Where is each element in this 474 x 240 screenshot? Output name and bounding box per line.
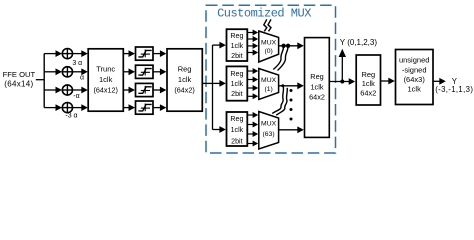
- svg-text:2bit: 2bit: [231, 90, 242, 98]
- svg-text:Reg: Reg: [230, 32, 243, 40]
- svg-text:Trunc: Trunc: [96, 65, 115, 74]
- svg-text:(64x12): (64x12): [94, 86, 118, 95]
- svg-text:-α: -α: [73, 93, 79, 100]
- svg-text:Y (0,1,2,3): Y (0,1,2,3): [340, 38, 378, 47]
- svg-text:Reg: Reg: [362, 70, 376, 79]
- svg-text:1clk: 1clk: [178, 75, 192, 84]
- svg-text:1clk: 1clk: [311, 82, 324, 91]
- svg-text:-signed: -signed: [402, 66, 427, 75]
- svg-text:1clk: 1clk: [231, 126, 244, 134]
- svg-text:α: α: [80, 74, 84, 81]
- svg-text:FFE OUT: FFE OUT: [3, 70, 36, 79]
- svg-text:MUX: MUX: [261, 121, 277, 128]
- svg-text:3 α: 3 α: [72, 60, 82, 67]
- svg-text:Reg: Reg: [178, 65, 192, 74]
- svg-text:(63): (63): [263, 131, 275, 138]
- svg-text:64x2: 64x2: [309, 92, 325, 101]
- svg-text:(64x2): (64x2): [174, 86, 194, 95]
- svg-text:MUX: MUX: [261, 40, 277, 47]
- svg-text:-3 α: -3 α: [65, 113, 77, 120]
- svg-text:(64x3): (64x3): [404, 75, 426, 84]
- svg-text:Customized MUX: Customized MUX: [217, 6, 311, 20]
- svg-text:1clk: 1clk: [408, 84, 422, 93]
- svg-text:2bit: 2bit: [231, 52, 242, 60]
- svg-text:(-3,-1,1,3): (-3,-1,1,3): [435, 85, 473, 94]
- svg-text:MUX: MUX: [261, 77, 277, 84]
- svg-text:Reg: Reg: [230, 70, 243, 78]
- svg-text:1clk: 1clk: [99, 75, 113, 84]
- svg-text:1clk: 1clk: [231, 80, 244, 88]
- svg-text:Reg: Reg: [230, 115, 243, 123]
- svg-text:1clk: 1clk: [362, 79, 375, 88]
- svg-text:1clk: 1clk: [231, 42, 244, 50]
- svg-text:64x2: 64x2: [360, 88, 376, 97]
- svg-text:2bit: 2bit: [231, 138, 242, 146]
- svg-text:(1): (1): [264, 86, 272, 93]
- svg-text:(0): (0): [264, 48, 272, 55]
- svg-text:unsigned: unsigned: [399, 56, 429, 65]
- svg-text:(64x14): (64x14): [4, 80, 33, 89]
- svg-text:Reg: Reg: [310, 72, 323, 81]
